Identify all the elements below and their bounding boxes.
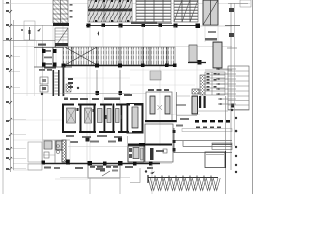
faint structural grid verticals	[27, 26, 197, 165]
ramp hatch below strip	[55, 28, 68, 47]
site line x42	[42, 25, 44, 164]
small box left of bottom edge	[28, 164, 42, 170]
toilet rows box	[205, 72, 225, 95]
sheet border right	[252, 0, 254, 194]
dense toilet block right	[200, 75, 205, 95]
zigzag retaining wall	[148, 172, 220, 191]
core text row	[64, 94, 132, 100]
text annotation above line	[131, 22, 157, 25]
text right of stair	[205, 38, 217, 41]
corner below toilets	[130, 168, 140, 183]
right dimension verticals	[230, 3, 232, 170]
top hatched block C	[133, 0, 172, 24]
entry walls right	[199, 96, 206, 108]
door leaf box mid band	[150, 71, 161, 80]
stepped outline lower right	[174, 141, 232, 153]
bottom thick edge with columns	[42, 163, 160, 165]
elevator bank walls	[62, 104, 144, 134]
lower right detail boxes	[205, 143, 232, 168]
mid-left area marks	[68, 78, 79, 89]
wall x174 with blobs	[173, 128, 175, 153]
text under core	[66, 135, 122, 143]
bottom zone room lines	[68, 146, 128, 148]
dimension line y25 left	[10, 25, 53, 27]
axis tick extension lines	[10, 57, 26, 169]
long faint plan lines	[13, 26, 232, 170]
left axis tick marks	[9, 10, 12, 170]
wall line y40	[3, 40, 55, 42]
line below stair	[188, 62, 206, 64]
machine room box around shaft	[127, 104, 143, 134]
lower-left room boxes	[40, 77, 48, 95]
storage wall strip top left (hatched boxes)	[53, 0, 69, 26]
right stall block	[189, 45, 197, 62]
grid line x13 main left wall	[13, 20, 15, 170]
room right of core with hatched bars	[146, 89, 172, 121]
text near dashed wall	[180, 118, 189, 120]
core bottom wall (with gaps)	[62, 131, 144, 133]
right annotations top	[228, 3, 248, 5]
upper-left rooms text	[38, 44, 52, 65]
faint verticals between y26-47	[90, 26, 175, 47]
right legend table	[216, 66, 249, 110]
top hatched block D	[174, 0, 198, 22]
parking stall band	[62, 47, 177, 68]
staircase walls left	[53, 66, 72, 96]
ramp X	[65, 47, 97, 65]
wall under room	[145, 120, 177, 122]
porch columns lines down	[89, 178, 91, 194]
room below center	[145, 124, 173, 162]
left rooms walls	[34, 47, 72, 67]
ramp box upper left	[24, 21, 35, 40]
toilets block	[128, 146, 144, 162]
text row above staircase	[39, 67, 56, 71]
wall above toilets	[128, 144, 172, 146]
small arrow mark below line	[98, 31, 100, 36]
marks right of storage strip	[70, 4, 73, 18]
left dimension line	[10, 0, 12, 172]
columns on band	[62, 64, 177, 68]
leader arrows	[216, 69, 236, 104]
right dots	[231, 109, 238, 173]
main thick line y25 with columns	[86, 25, 200, 27]
stair right of rooms	[176, 89, 199, 122]
stair mid right	[213, 42, 222, 68]
low wall band right	[182, 129, 232, 132]
elevator cars	[67, 107, 139, 128]
columns left rooms	[42, 49, 68, 67]
text below bottom edge	[75, 166, 153, 170]
walls x97 x120 down to core	[96, 70, 98, 96]
sheet border left	[2, 0, 4, 194]
left axis labels	[6, 2, 9, 170]
entrance porch	[60, 166, 130, 179]
core top wall (with door gaps)	[62, 104, 144, 106]
stair top right	[203, 0, 218, 25]
bottom-left rooms	[28, 140, 88, 179]
sheet inner frame top	[3, 3, 250, 5]
faint structural grid horizontals	[13, 70, 213, 140]
top hatched block B	[88, 0, 132, 22]
arrow mark mid	[37, 28, 41, 32]
heavy dashed wall right	[195, 120, 230, 123]
